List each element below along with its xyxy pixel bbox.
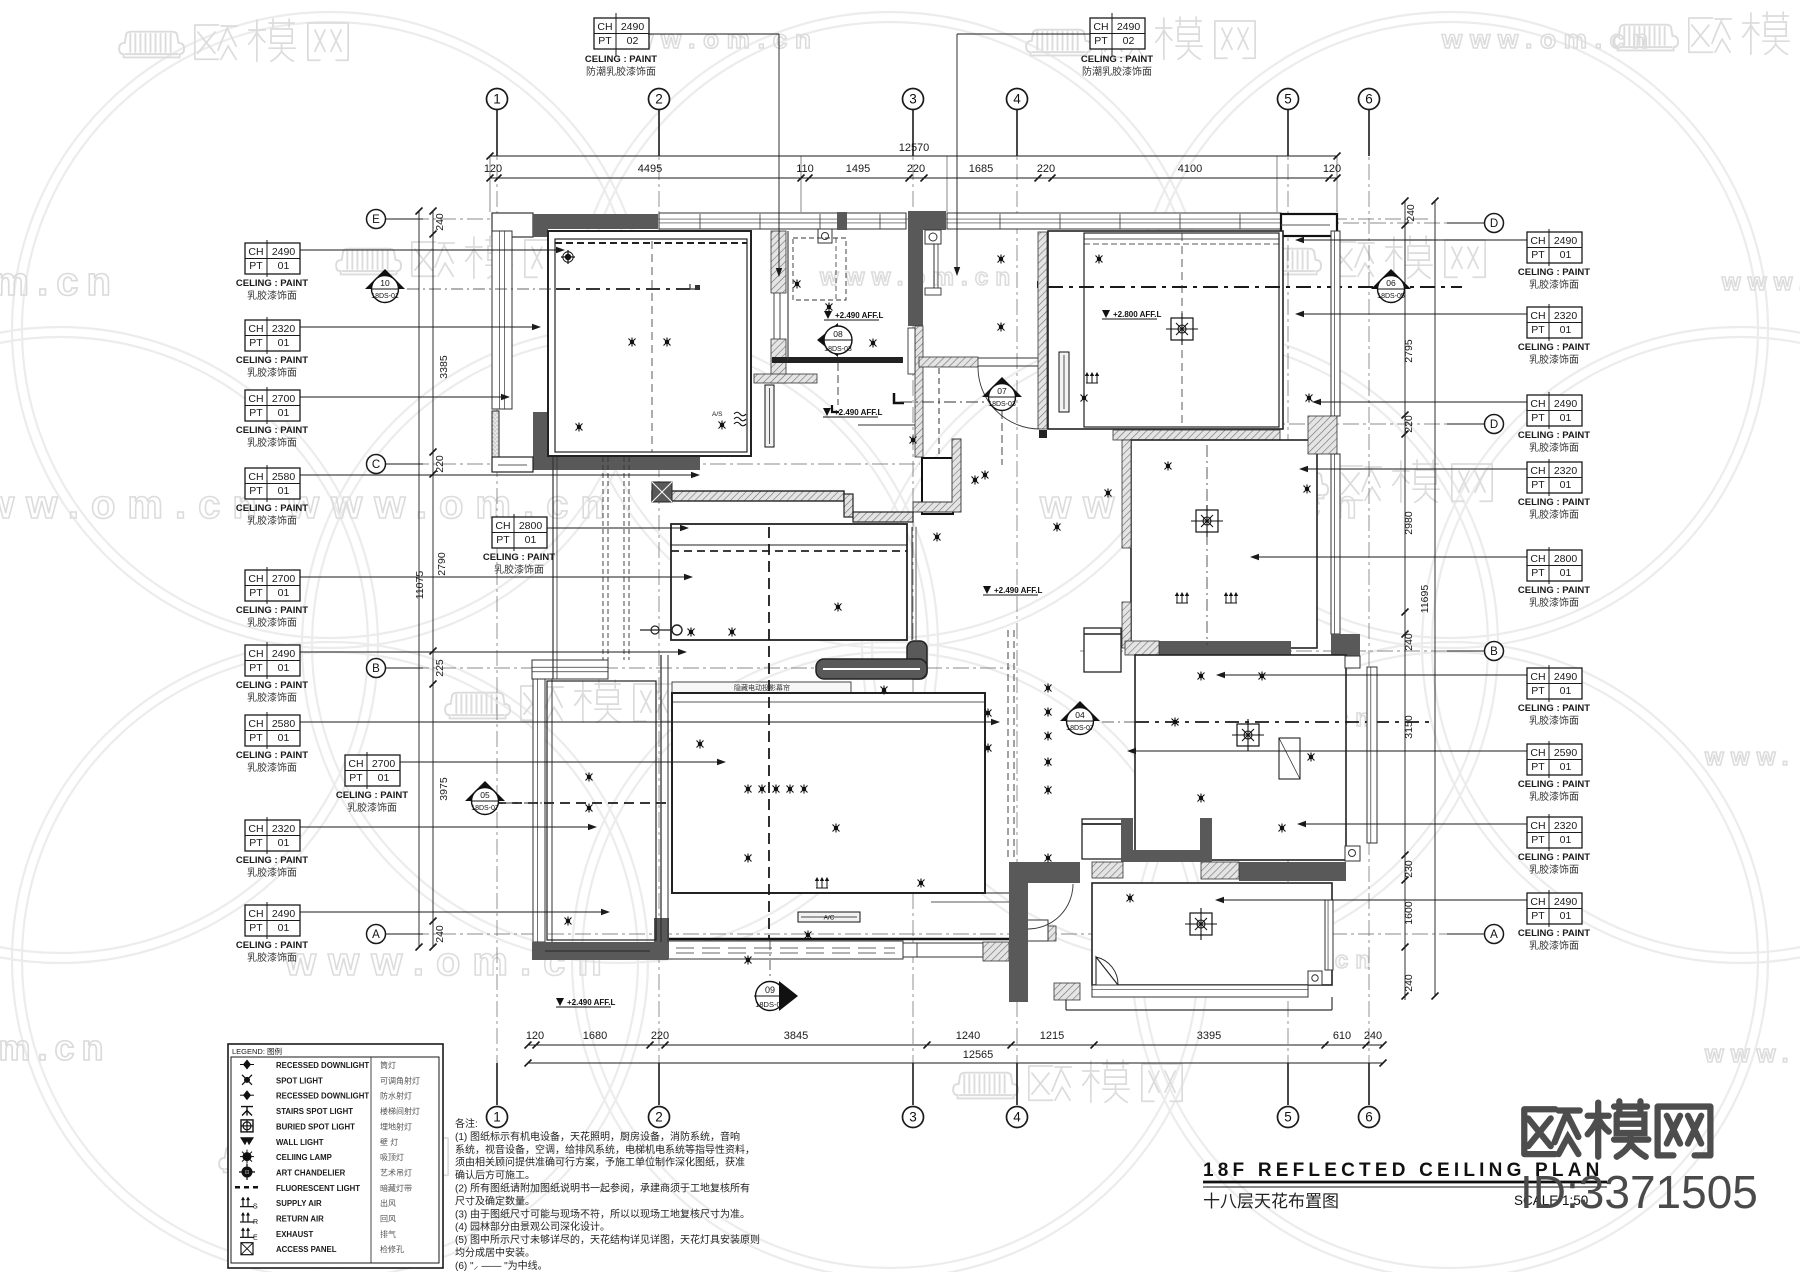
label box CH2700 inline xyxy=(345,752,400,789)
svg-text:2490: 2490 xyxy=(272,908,296,920)
svg-text:05: 05 xyxy=(480,790,490,800)
svg-text:2800: 2800 xyxy=(519,520,543,532)
window band left step xyxy=(532,660,608,679)
grid line B xyxy=(386,667,1010,669)
svg-text:CELING : PAINT: CELING : PAINT xyxy=(336,790,408,801)
svg-text:乳胶漆饰面: 乳胶漆饰面 xyxy=(247,691,297,704)
svg-text:110: 110 xyxy=(796,163,814,175)
wall band below master bath xyxy=(772,357,903,363)
svg-text:3845: 3845 xyxy=(784,1030,808,1042)
svg-text:120: 120 xyxy=(484,163,502,175)
wall top-left corner block xyxy=(492,213,533,237)
svg-text:R: R xyxy=(253,1219,258,1226)
svg-text:2: 2 xyxy=(655,92,663,107)
svg-text:乳胶漆饰面: 乳胶漆饰面 xyxy=(1529,353,1579,366)
shaft white rect xyxy=(908,328,915,374)
svg-text:07: 07 xyxy=(997,386,1007,396)
svg-text:2795: 2795 xyxy=(1403,339,1415,363)
leader from CH2490 y905 xyxy=(300,911,608,913)
wall bottom of bedroom3 xyxy=(1239,862,1346,881)
access panel symbol corridor xyxy=(652,482,672,502)
svg-text:2580: 2580 xyxy=(272,718,296,730)
svg-text:4100: 4100 xyxy=(1178,163,1202,175)
svg-text:CH: CH xyxy=(248,718,263,730)
svg-text:610: 610 xyxy=(1333,1030,1351,1042)
svg-text:220: 220 xyxy=(1037,163,1055,175)
corridor top line xyxy=(858,424,920,426)
grid bubble C xyxy=(367,455,386,474)
grid bubble 1 top xyxy=(487,89,508,110)
svg-text:02: 02 xyxy=(627,35,639,47)
legend row EXHAUST xyxy=(240,1228,254,1237)
svg-text:2580: 2580 xyxy=(272,471,296,483)
svg-text:CH: CH xyxy=(597,21,612,33)
svg-text:3: 3 xyxy=(909,1110,917,1125)
label box CH2490 right y668 xyxy=(1527,665,1582,702)
svg-text:CH: CH xyxy=(248,908,263,920)
AFF label left bedroom xyxy=(556,998,564,1006)
wall top mid dark block xyxy=(908,211,946,230)
svg-text:PT: PT xyxy=(249,922,263,934)
legend row ART CHANDELIER xyxy=(242,1166,253,1177)
svg-text:CELING : PAINT: CELING : PAINT xyxy=(1518,852,1590,863)
svg-text:乳胶漆饰面: 乳胶漆饰面 xyxy=(247,366,297,379)
small dark block hatchwall top xyxy=(1037,281,1045,288)
svg-text:2: 2 xyxy=(655,1110,663,1125)
legend row WALL LIGHT xyxy=(240,1137,254,1145)
legend row STAIRS SPOT LIGHT xyxy=(241,1107,253,1116)
svg-text:乳胶漆饰面: 乳胶漆饰面 xyxy=(347,801,397,814)
svg-text:CH: CH xyxy=(1530,896,1545,908)
svg-text:STAIRS SPOT LIGHT: STAIRS SPOT LIGHT xyxy=(276,1107,353,1116)
watermark logo row2-left xyxy=(336,236,565,278)
corner block room4 xyxy=(1308,971,1322,985)
svg-text:CELING : PAINT: CELING : PAINT xyxy=(1518,267,1590,278)
svg-text:18DS-01: 18DS-01 xyxy=(371,293,399,300)
svg-text:系统，视音设备，空调，给排风系统，电梯机电系统等指导性资料，: 系统，视音设备，空调，给排风系统，电梯机电系统等指导性资料， xyxy=(455,1143,755,1156)
ceiling lamp room4 xyxy=(1190,913,1212,935)
svg-text:PT: PT xyxy=(1531,324,1545,336)
leader from top east box xyxy=(957,33,1090,35)
svg-text:乳胶漆饰面: 乳胶漆饰面 xyxy=(247,514,297,527)
dark block SE of left bedroom xyxy=(654,918,669,959)
room bedroom2 ceiling xyxy=(1048,231,1283,429)
svg-text:01: 01 xyxy=(278,337,290,349)
svg-text:(5) 图中所示尺寸未够详尽的，天花结构详见详图，天花灯具安: (5) 图中所示尺寸未够详尽的，天花结构详见详图，天花灯具安装原则 xyxy=(455,1233,760,1246)
leader from CH2490 right y395 xyxy=(1314,401,1527,403)
detail marker 05/18DS-07 xyxy=(465,781,505,801)
corridor dash line vertical right xyxy=(1007,630,1009,860)
svg-text:01: 01 xyxy=(278,407,290,419)
svg-text:1600: 1600 xyxy=(1403,901,1415,925)
legend row FLUORESCENT LIGHT xyxy=(235,1186,259,1189)
svg-text:SPOT LIGHT: SPOT LIGHT xyxy=(276,1076,323,1085)
cabinet square entry xyxy=(1082,819,1123,859)
room4 ceiling xyxy=(1092,883,1332,985)
svg-text:PT: PT xyxy=(249,260,263,272)
wall top-right corner block xyxy=(1281,214,1337,236)
svg-text:2700: 2700 xyxy=(372,758,396,770)
svg-text:D: D xyxy=(1490,419,1498,431)
label box CH2490 left y243 xyxy=(245,240,300,277)
svg-text:CELING : PAINT: CELING : PAINT xyxy=(1081,54,1153,65)
window band top east xyxy=(947,213,1281,229)
room master bedroom ceiling xyxy=(548,231,751,456)
svg-text:乳胶漆饰面: 乳胶漆饰面 xyxy=(494,563,544,576)
dining east wall lines xyxy=(911,527,913,640)
svg-text:CELIING LAMP: CELIING LAMP xyxy=(276,1153,332,1162)
window left wall (master bedroom) xyxy=(492,231,512,409)
hatch pier entry xyxy=(1092,862,1123,878)
wall hatched pier bottom center xyxy=(983,942,1009,961)
svg-text:CH: CH xyxy=(1530,820,1545,832)
svg-text:PT: PT xyxy=(249,485,263,497)
svg-text:(3) 由于图纸尺寸可能与现场不符，所以以现场工地复核尺寸为: (3) 由于图纸尺寸可能与现场不符，所以以现场工地复核尺寸为准。 xyxy=(455,1207,750,1220)
label box CH2800 right y550 xyxy=(1527,547,1582,584)
dimension extension lines top xyxy=(489,156,491,212)
svg-text:SUPPLY AIR: SUPPLY AIR xyxy=(276,1199,322,1208)
svg-text:11075: 11075 xyxy=(414,571,426,600)
svg-text:乳胶漆饰面: 乳胶漆饰面 xyxy=(1529,863,1579,876)
svg-text:(4) 园林部分由景观公司深化设计。: (4) 园林部分由景观公司深化设计。 xyxy=(455,1220,610,1233)
svg-text:CH: CH xyxy=(1530,310,1545,322)
light symbols xyxy=(565,254,571,260)
svg-text:PT: PT xyxy=(1531,412,1545,424)
svg-text:PT: PT xyxy=(1531,834,1545,846)
label box CH2320 right y817 xyxy=(1527,814,1582,851)
svg-text:3150: 3150 xyxy=(1403,715,1415,739)
hatch band closet top xyxy=(754,374,817,383)
svg-text:18DS-07: 18DS-07 xyxy=(1066,725,1094,732)
door pivot square kitchen xyxy=(818,229,832,243)
grid bubble A right xyxy=(1485,925,1504,944)
centerline living v xyxy=(768,527,770,938)
pendant circles dining xyxy=(651,626,659,634)
wall dark stub below entry xyxy=(1009,862,1028,1002)
svg-text:PT: PT xyxy=(249,732,263,744)
svg-text:PT: PT xyxy=(1531,761,1545,773)
svg-text:01: 01 xyxy=(378,772,390,784)
AFF label hallway 1 xyxy=(824,311,832,319)
svg-text:乳胶漆饰面: 乳胶漆饰面 xyxy=(1529,939,1579,952)
label box CH2490 right y232 xyxy=(1527,229,1582,266)
room bedroom3 ceiling xyxy=(1135,655,1346,860)
svg-text:01: 01 xyxy=(1560,761,1572,773)
room bathroom ceiling xyxy=(1131,440,1317,648)
svg-text:18DS-03: 18DS-03 xyxy=(824,346,852,353)
svg-text:4: 4 xyxy=(1013,1110,1021,1125)
room4 outer line xyxy=(1066,1009,1332,1011)
svg-text:PT: PT xyxy=(598,35,612,47)
svg-text:PT: PT xyxy=(249,407,263,419)
kitchen shaft square xyxy=(1084,628,1121,672)
svg-text:01: 01 xyxy=(278,837,290,849)
svg-text:CH: CH xyxy=(1530,671,1545,683)
detail marker 06/18DS-05 xyxy=(1371,269,1411,289)
svg-text:+2.490 AFF.L: +2.490 AFF.L xyxy=(834,408,883,417)
svg-text:S: S xyxy=(253,1204,258,1211)
svg-text:240: 240 xyxy=(434,925,446,943)
svg-text:2980: 2980 xyxy=(1403,511,1415,535)
svg-text:1680: 1680 xyxy=(583,1030,607,1042)
door band bottom living xyxy=(903,943,983,957)
right dimension total xyxy=(1434,201,1436,996)
svg-text:PT: PT xyxy=(1531,910,1545,922)
grid line D2 xyxy=(1100,423,1484,425)
svg-text:D: D xyxy=(1490,218,1498,230)
svg-text:EXHAUST: EXHAUST xyxy=(276,1230,313,1239)
wall top dark segment west xyxy=(533,214,658,229)
svg-text:CELING : PAINT: CELING : PAINT xyxy=(236,355,308,366)
svg-text:PT: PT xyxy=(1531,249,1545,261)
svg-text:240: 240 xyxy=(1405,204,1417,222)
svg-text:10: 10 xyxy=(380,278,390,288)
grid bubble D right xyxy=(1485,214,1504,233)
svg-text:120: 120 xyxy=(526,1030,544,1042)
living south wall inner edge xyxy=(668,938,1009,941)
svg-text:E: E xyxy=(253,1234,258,1241)
svg-text:2800: 2800 xyxy=(1554,553,1578,565)
svg-text:2320: 2320 xyxy=(272,823,296,835)
svg-text:乳胶漆饰面: 乳胶漆饰面 xyxy=(1529,596,1579,609)
grid line 6 xyxy=(1368,110,1370,1105)
bath window / wall lines top center xyxy=(787,231,789,360)
svg-text:+2.800 AFF.L: +2.800 AFF.L xyxy=(1113,310,1162,319)
svg-text:2320: 2320 xyxy=(1554,820,1578,832)
svg-text:CELING : PAINT: CELING : PAINT xyxy=(1518,342,1590,353)
svg-text:09: 09 xyxy=(765,985,775,995)
leader from CH2320 y320 xyxy=(300,326,539,328)
entry door arc xyxy=(1028,884,1073,929)
svg-text:08: 08 xyxy=(833,329,843,339)
window right wall bedroom2 xyxy=(1331,231,1340,416)
svg-text:6: 6 xyxy=(1365,92,1373,107)
label box CH2320 right y307 xyxy=(1527,304,1582,341)
label box CH2320 right y462 xyxy=(1527,459,1582,496)
legend row CELIING LAMP xyxy=(243,1152,252,1161)
detail marker 10/18DS-01 xyxy=(365,269,405,289)
svg-text:01: 01 xyxy=(1560,324,1572,336)
grid bubble 6 top xyxy=(1359,89,1380,110)
svg-text:240: 240 xyxy=(1403,633,1415,651)
svg-text:5: 5 xyxy=(1284,92,1292,107)
svg-text:2590: 2590 xyxy=(1554,747,1578,759)
legend row ACCESS PANEL xyxy=(241,1243,253,1255)
window right room4 xyxy=(1325,900,1333,970)
svg-text:www.: www. xyxy=(1704,1041,1796,1068)
grid line A xyxy=(386,933,1480,935)
room dining ceiling xyxy=(671,524,907,640)
centerline left bedroom xyxy=(480,802,545,804)
AC bar living xyxy=(798,912,860,922)
svg-text:CH: CH xyxy=(248,323,263,335)
svg-text:1495: 1495 xyxy=(846,163,870,175)
svg-text:220: 220 xyxy=(434,455,446,473)
svg-text:乳胶漆饰面: 乳胶漆饰面 xyxy=(247,289,297,302)
window speckle strip left xyxy=(492,411,499,457)
hatch band bottom entry xyxy=(1054,983,1080,1000)
svg-text:225: 225 xyxy=(434,659,446,677)
svg-text:1215: 1215 xyxy=(1040,1030,1064,1042)
hatch pier left of bathroom lower xyxy=(1122,602,1131,648)
foyer wall vertical dark xyxy=(908,230,923,326)
leader from CH2490 y645 xyxy=(300,651,685,653)
grid line 2 xyxy=(658,110,660,1105)
svg-text:RECESSED DOWNLIGHT: RECESSED DOWNLIGHT xyxy=(276,1061,369,1070)
svg-text:2490: 2490 xyxy=(621,21,645,33)
leader from top west box xyxy=(648,33,779,35)
svg-text:01: 01 xyxy=(278,922,290,934)
wall dark L master bedroom SW xyxy=(533,412,700,470)
svg-text:确认后方可施工。: 确认后方可施工。 xyxy=(455,1169,535,1182)
svg-text:E: E xyxy=(372,214,380,226)
legend row SPOT LIGHT xyxy=(244,1077,250,1083)
grid bubble B xyxy=(367,659,386,678)
svg-text:CH: CH xyxy=(1530,235,1545,247)
svg-text:01: 01 xyxy=(1560,479,1572,491)
matchline mark xyxy=(894,393,904,403)
grid line C xyxy=(386,463,920,465)
svg-text:220: 220 xyxy=(1403,415,1415,433)
svg-text:乳胶漆饰面: 乳胶漆饰面 xyxy=(247,761,297,774)
svg-text:壁 灯: 壁 灯 xyxy=(380,1137,398,1147)
svg-text:06: 06 xyxy=(1386,278,1396,288)
svg-text:CH: CH xyxy=(1530,465,1545,477)
svg-text:(2) 所有图纸请附加图纸说明书一起参阅，承建商须于工地复核: (2) 所有图纸请附加图纸说明书一起参阅，承建商须于工地复核所有 xyxy=(455,1182,750,1195)
bath door lines xyxy=(773,293,775,339)
svg-text:ACCESS PANEL: ACCESS PANEL xyxy=(276,1245,337,1254)
label box CH2320 left y320 xyxy=(245,317,300,354)
dashed line left rooms h xyxy=(480,802,672,804)
svg-text:均分成居中安装。: 均分成居中安装。 xyxy=(455,1246,535,1259)
label box CH2320 left y820 xyxy=(245,817,300,854)
AFF label hallway 2 xyxy=(823,408,831,416)
svg-text:www.: www. xyxy=(1721,269,1800,296)
label box CH2800 inline xyxy=(492,514,547,551)
leader from CH2590 right y744 xyxy=(1129,750,1527,752)
svg-text:乳胶漆饰面: 乳胶漆饰面 xyxy=(1529,790,1579,803)
watermark logo row2-right xyxy=(1256,236,1485,278)
grid bubble A xyxy=(367,925,386,944)
AFF label corridor xyxy=(983,586,991,594)
label box CH2490 left y645 xyxy=(245,642,300,679)
svg-text:240: 240 xyxy=(1364,1030,1382,1042)
svg-text:乳胶漆饰面: 乳胶漆饰面 xyxy=(247,616,297,629)
leader from CH2490 right y893 xyxy=(1217,899,1527,901)
svg-text:3395: 3395 xyxy=(1197,1030,1221,1042)
svg-text:CELING : PAINT: CELING : PAINT xyxy=(1518,779,1590,790)
supply air symbols xyxy=(815,877,829,888)
leader from CH2320 y820 xyxy=(300,826,595,828)
grid bubble 6 bottom xyxy=(1359,1107,1380,1128)
svg-text:CELING : PAINT: CELING : PAINT xyxy=(236,940,308,951)
svg-text:01: 01 xyxy=(1560,249,1572,261)
grid line 4 xyxy=(1016,110,1018,1105)
svg-text:WALL LIGHT: WALL LIGHT xyxy=(276,1138,324,1147)
grid line 5 xyxy=(1287,110,1289,1105)
svg-text:BURIED SPOT LIGHT: BURIED SPOT LIGHT xyxy=(276,1122,355,1131)
svg-text:2490: 2490 xyxy=(1554,896,1578,908)
svg-text:01: 01 xyxy=(278,662,290,674)
centerline bedroom3 xyxy=(1135,721,1430,723)
bathroom centerline v xyxy=(1206,445,1208,645)
svg-text:CELING : PAINT: CELING : PAINT xyxy=(1518,497,1590,508)
svg-text:筒灯: 筒灯 xyxy=(380,1060,396,1070)
shower dashed box master bath xyxy=(793,238,846,300)
hatch pier left of bathroom upper xyxy=(1122,440,1131,548)
svg-text:CH: CH xyxy=(248,393,263,405)
svg-text:om.cn: om.cn xyxy=(0,1027,111,1068)
svg-text:乳胶漆饰面: 乳胶漆饰面 xyxy=(247,951,297,964)
AFF label bedroom2 xyxy=(1102,310,1110,318)
svg-text:220: 220 xyxy=(907,163,925,175)
leader from CH2700 y570 xyxy=(300,576,691,578)
projector screen bar xyxy=(672,682,851,693)
hatch pier left of room4 door xyxy=(1034,926,1056,941)
svg-text:排气: 排气 xyxy=(380,1229,396,1239)
wall bottom dark segment west xyxy=(532,942,668,960)
svg-text:ID:3371505: ID:3371505 xyxy=(1520,1166,1758,1218)
svg-text:PT: PT xyxy=(1531,479,1545,491)
watermark logo row4-logo xyxy=(445,680,674,722)
legend row BURIED SPOT LIGHT xyxy=(241,1120,253,1132)
svg-text:尺寸及确定数量。: 尺寸及确定数量。 xyxy=(455,1194,535,1207)
grid bubble 3 top xyxy=(903,89,924,110)
svg-text:检修孔: 检修孔 xyxy=(380,1244,404,1254)
legend row RECESSED DOWNLIGHT xyxy=(243,1060,251,1070)
svg-text:2700: 2700 xyxy=(272,393,296,405)
svg-text:18DS-03: 18DS-03 xyxy=(988,401,1016,408)
bottom grid bubble stubs xyxy=(496,1063,498,1105)
svg-text:04: 04 xyxy=(1075,710,1085,720)
svg-text:6: 6 xyxy=(1365,1110,1373,1125)
svg-text:CH: CH xyxy=(1530,398,1545,410)
leader from CH2490 y243 xyxy=(300,249,563,251)
svg-text:PT: PT xyxy=(349,772,363,784)
svg-text:CH: CH xyxy=(495,520,510,532)
chandelier row living xyxy=(745,785,752,794)
svg-text:乳胶漆饰面: 乳胶漆饰面 xyxy=(1529,714,1579,727)
svg-text:出风: 出风 xyxy=(380,1198,396,1208)
white pier entry xyxy=(1020,920,1048,941)
svg-text:www.om.cn: www.om.cn xyxy=(287,483,617,527)
svg-text:B: B xyxy=(1490,646,1498,658)
watermark logo bottom-left xyxy=(219,1134,448,1176)
label box CH2490 right y395 xyxy=(1527,392,1582,429)
foyer closet lines xyxy=(933,244,935,292)
grid line 1 xyxy=(496,110,498,1105)
svg-text:01: 01 xyxy=(1560,567,1572,579)
svg-text:PT: PT xyxy=(496,534,510,546)
legend row RETURN AIR xyxy=(240,1213,254,1222)
svg-text:CELING : PAINT: CELING : PAINT xyxy=(236,605,308,616)
svg-text:01: 01 xyxy=(278,260,290,272)
svg-text:3385: 3385 xyxy=(438,355,450,379)
top grid bubble stubs xyxy=(496,110,498,156)
svg-text:PT: PT xyxy=(249,587,263,599)
AC bar bedroom2 xyxy=(1059,352,1069,412)
svg-text:3: 3 xyxy=(909,92,917,107)
wardrobe bedroom3 xyxy=(1279,738,1300,779)
window right wall bathroom xyxy=(1331,454,1340,634)
svg-text:01: 01 xyxy=(525,534,537,546)
leader from CH2490 right y668 xyxy=(1218,674,1527,676)
grid bubble 3 bottom xyxy=(903,1107,924,1128)
window right wall bedroom3 xyxy=(1367,667,1377,843)
top dimension chain xyxy=(490,177,1337,179)
svg-text:2320: 2320 xyxy=(272,323,296,335)
svg-text:01: 01 xyxy=(278,732,290,744)
